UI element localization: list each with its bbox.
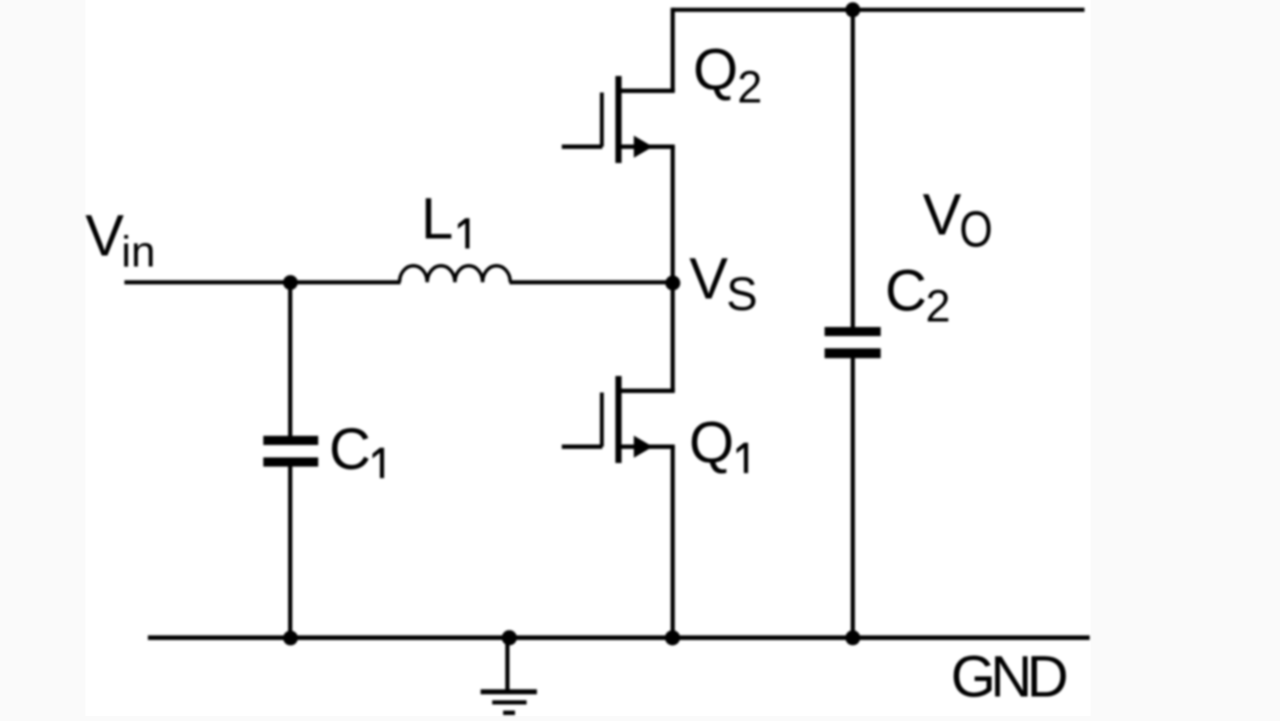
label L1 [421, 187, 470, 252]
label Vin [85, 204, 155, 277]
svg-text:C: C [885, 259, 927, 324]
svg-text:GND: GND [951, 645, 1069, 710]
svg-text:V: V [923, 182, 962, 247]
svg-text:2: 2 [737, 62, 762, 113]
wire Q2 source to VS [671, 147, 675, 283]
wire C1 branch upper [288, 283, 292, 437]
label C1 [329, 417, 384, 482]
label Q1 [689, 411, 748, 476]
transistor Q2 [562, 76, 675, 163]
node C1 ground junction [283, 631, 298, 646]
node C2 ground junction [845, 630, 860, 645]
wire Q2 drain vertical [671, 8, 675, 91]
svg-text:O: O [959, 200, 992, 257]
label VS [689, 247, 757, 320]
label C2 [885, 259, 951, 332]
wire VS to Q1 drain [671, 283, 675, 391]
svg-text:in: in [121, 227, 155, 276]
wire top rail Vo [673, 8, 1085, 12]
label Q2 [693, 37, 762, 112]
wire ground rail GND [148, 635, 1090, 640]
transistor Q1 [562, 376, 675, 463]
label Vo [923, 182, 993, 257]
svg-text:S: S [726, 267, 757, 320]
svg-text:C: C [329, 417, 371, 482]
svg-text:L: L [421, 187, 453, 252]
node VS junction [665, 276, 680, 291]
ground [481, 689, 537, 715]
svg-text:2: 2 [926, 280, 951, 331]
svg-text:V: V [689, 247, 728, 312]
node Vo top junction [845, 2, 860, 17]
node ground stub junction [502, 630, 517, 645]
wire ground stub [505, 638, 509, 690]
svg-text:Q: Q [689, 411, 734, 476]
wire C1 branch lower [288, 466, 292, 638]
wire C2 branch lower [851, 358, 855, 638]
wire C2 branch upper [851, 10, 855, 328]
inductor L1 [400, 266, 511, 283]
capacitor C1 [263, 436, 318, 467]
node Vin C1 junction [283, 275, 298, 290]
capacitor C2 [825, 327, 881, 358]
node Q1 ground junction [665, 630, 680, 645]
wire Q1 source to ground rail [671, 447, 675, 638]
svg-text:Q: Q [693, 37, 738, 102]
svg-text:V: V [85, 204, 124, 269]
wire L1 to node VS [510, 280, 672, 284]
wire Vin input [124, 280, 400, 284]
